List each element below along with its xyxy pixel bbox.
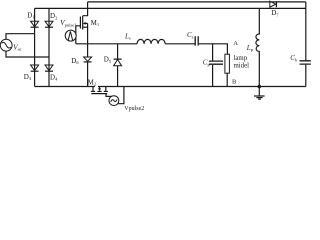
svg-text:midel: midel [234,62,250,69]
svg-text:A: A [233,40,238,47]
svg-text:lamp: lamp [234,55,248,62]
svg-text:ac: ac [18,47,22,52]
svg-text:pulse1: pulse1 [65,22,78,27]
svg-text:Vpulse2: Vpulse2 [124,106,144,112]
svg-text:B: B [232,79,237,86]
